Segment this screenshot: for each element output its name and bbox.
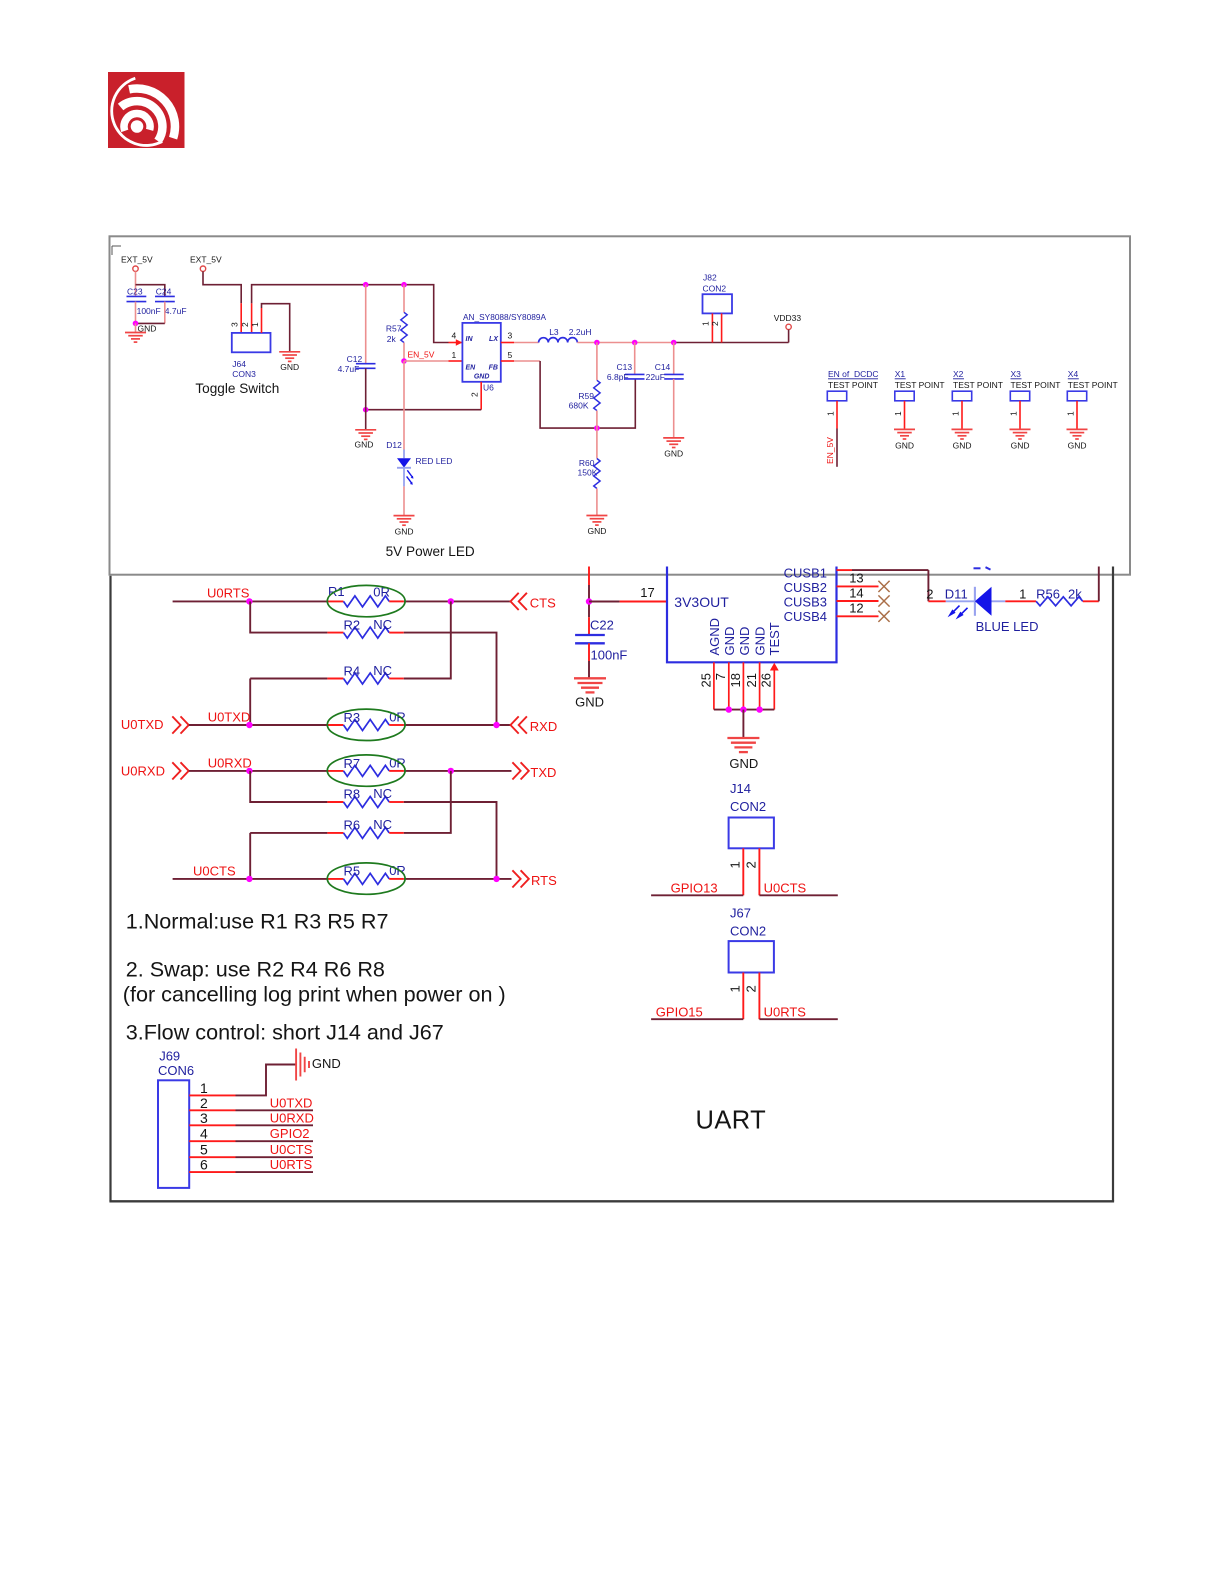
svg-text:2. Swap: use R2 R4 R6 R8: 2. Swap: use R2 R4 R6 R8 [126,956,385,981]
wire U6 gnd to C12 gnd [366,409,482,411]
node gnd bus 7 [726,706,732,712]
svg-text:U0RXD: U0RXD [270,1110,314,1125]
wire J14 pin2 [758,848,760,895]
wire U0TXD row [189,724,328,726]
resistor R59 680K [596,343,598,381]
capacitor C14 22uF [673,343,675,375]
capacitor C23 [127,295,147,297]
svg-text:3.Flow control: short J14 and: 3.Flow control: short J14 and J67 [126,1019,444,1044]
svg-text:C14: C14 [655,362,671,372]
node rail R57 tap [401,282,407,288]
highlight ellipse R3 [327,709,405,740]
ground J64 [279,351,300,353]
svg-text:U0RXD: U0RXD [208,755,252,770]
wire U6 GND pin down [480,382,482,410]
wire 3V3OUT riser [588,567,590,586]
svg-text:2: 2 [744,861,759,868]
svg-text:5: 5 [200,1142,208,1158]
svg-text:U0RTS: U0RTS [270,1157,313,1172]
svg-text:X2: X2 [953,369,964,379]
svg-text:U0CTS: U0CTS [764,881,807,896]
Espressif logo [108,72,185,148]
node CTS junction [448,598,454,604]
svg-text:14: 14 [849,586,863,601]
svg-text:GND: GND [575,695,604,710]
op-amp U6 AN_SY8088/SY8089A [462,323,500,382]
svg-text:R7: R7 [344,756,361,771]
svg-text:GND: GND [355,440,374,450]
svg-text:CTS: CTS [530,595,556,610]
wire GND pin 7 [728,662,730,709]
ground C23/C24 [125,332,146,334]
svg-text:2: 2 [926,586,933,601]
node gnd bus 21 [756,706,762,712]
highlight ellipse R1 [327,585,405,616]
wire J69 pin5 [189,1156,235,1158]
connector J64 CON3 [232,333,271,352]
node U0RXD junction [246,768,252,774]
svg-text:6.8pF: 6.8pF [607,372,629,382]
wire GPIO13 [651,894,743,896]
wire EN_5V to U6 EN [404,360,449,362]
svg-text:GND: GND [588,526,607,536]
svg-text:RTS: RTS [531,873,557,888]
svg-text:2.2uH: 2.2uH [569,327,592,337]
svg-text:NC: NC [373,663,392,678]
svg-text:J82: J82 [703,272,717,282]
svg-text:TEST POINT: TEST POINT [953,380,1003,390]
wire D11 to R56 [1005,600,1036,602]
svg-text:100nF: 100nF [591,647,628,662]
svg-text:VDD33: VDD33 [774,313,802,323]
sheet corner tick [112,245,121,247]
svg-text:U0CTS: U0CTS [193,864,236,879]
wire J64 pin2 to rail [251,303,253,333]
svg-text:RED LED: RED LED [416,456,453,466]
svg-text:1: 1 [200,1080,208,1096]
wire J67 pin1 [742,973,744,1020]
wire L3 to VDD rail [577,342,673,344]
node U0TXD junction [246,722,252,728]
node TXD junction [448,768,454,774]
wire U0RXD row [189,770,328,772]
svg-text:NC: NC [373,617,392,632]
svg-text:GND: GND [474,374,490,381]
resistor R60 150K [596,428,598,458]
svg-text:TEST: TEST [767,622,782,655]
wire R8 left [250,771,327,802]
svg-text:0R: 0R [389,756,406,771]
ground D12 [394,515,415,517]
ground C12 [355,429,376,431]
svg-text:R6: R6 [344,818,361,833]
wire GND pin 18 [742,662,744,709]
wire C23 bottom [135,302,137,324]
resistor R6 NC [327,832,343,834]
svg-text:3: 3 [508,331,513,341]
node rail C14 tap [671,340,677,346]
svg-text:2: 2 [200,1095,208,1111]
led D11 emission arrows [952,606,960,614]
svg-text:25: 25 [698,673,713,687]
svg-text:U0TXD: U0TXD [208,709,251,724]
svg-text:4: 4 [200,1126,208,1142]
svg-text:GND: GND [729,756,758,771]
wire J69 pin6 [189,1171,235,1173]
node EN_5V [401,358,407,364]
svg-text:0R: 0R [389,863,406,878]
wire CUSB2 nc [837,585,879,587]
svg-text:FB: FB [489,364,498,371]
svg-text:C23: C23 [127,287,143,297]
svg-text:U0RTS: U0RTS [764,1005,807,1020]
wire J69 pin1 to ground [189,1094,235,1096]
wire J82 pin2 [721,313,723,342]
svg-text:4.7uF: 4.7uF [338,364,360,374]
svg-text:18: 18 [728,673,743,687]
svg-text:C13: C13 [617,362,633,372]
svg-text:X3: X3 [1011,369,1022,379]
wire rail into U6 IN pin [449,342,462,344]
svg-text:D11: D11 [945,586,968,601]
svg-text:680K: 680K [569,400,589,410]
uart section frame [109,576,111,1202]
svg-text:R57: R57 [386,324,402,334]
wire EN test point / net EN_5V stub [836,401,838,429]
wire U0CTS row [173,878,328,880]
ground J69 [295,1049,297,1081]
wire R2 right to RXD [404,633,497,725]
svg-text:26: 26 [759,673,774,687]
wire X3 to ground [1019,401,1021,430]
wire J67 pin2 [758,973,760,1020]
svg-text:2k: 2k [387,334,397,344]
svg-text:5V Power LED: 5V Power LED [386,544,475,559]
highlight ellipse R7 [327,755,405,786]
svg-text:NC: NC [373,786,392,801]
svg-text:2: 2 [744,985,759,992]
svg-text:TEST POINT: TEST POINT [828,380,878,390]
ic U-USB body [667,567,837,663]
resistor R2 NC [327,632,343,634]
svg-text:GPIO15: GPIO15 [656,1005,703,1020]
svg-text:AGND: AGND [707,618,722,656]
svg-text:D12: D12 [386,440,402,450]
node U0CTS junction [246,876,252,882]
ground X1 [894,428,915,430]
node U0RTS junction [246,598,252,604]
capacitor C24 [155,295,175,297]
svg-text:2: 2 [240,322,250,327]
svg-text:1: 1 [1066,411,1076,416]
svg-text:GND: GND [1011,441,1030,451]
svg-text:1: 1 [951,411,961,416]
node rail C13 tap [632,340,638,346]
resistor R8 NC [327,801,343,803]
svg-text:R4: R4 [344,664,361,679]
svg-text:3: 3 [230,322,240,327]
svg-text:TXD: TXD [530,765,556,780]
power section frame [110,236,1131,574]
svg-text:J64: J64 [232,359,246,369]
port CTS arrow [511,593,519,610]
wire AGND pin 25 [713,662,715,709]
svg-text:CUSB4: CUSB4 [784,609,827,624]
wire X4 to ground [1076,401,1078,430]
svg-text:U0CTS: U0CTS [270,1142,313,1157]
led D12 emission arrows [407,470,412,477]
svg-text:3: 3 [200,1110,208,1126]
svg-text:GND: GND [722,627,737,656]
wire U6 FB to divider [501,360,514,362]
svg-text:6: 6 [200,1157,208,1173]
svg-text:X1: X1 [895,369,906,379]
svg-text:GPIO2: GPIO2 [270,1126,310,1141]
svg-text:22uF: 22uF [646,372,665,382]
svg-text:C22: C22 [590,618,614,633]
ground C22 [574,677,606,679]
wire VDD33 to rail [788,330,790,343]
svg-text:EN of DCDC: EN of DCDC [828,369,879,379]
resistor R1 0R [327,600,343,602]
svg-text:GND: GND [953,441,972,451]
wire CUSB1 to D11 [837,569,853,571]
svg-text:GND: GND [737,627,752,656]
svg-text:150K: 150K [578,468,598,478]
port RXD arrow [511,716,519,733]
svg-text:CON2: CON2 [703,284,727,294]
svg-text:0R: 0R [389,710,406,725]
svg-text:U0TXD: U0TXD [270,1095,313,1110]
no-connect X CUSB2 [878,581,889,592]
svg-text:3V3OUT: 3V3OUT [674,594,729,610]
svg-text:CON6: CON6 [158,1063,194,1078]
svg-text:J69: J69 [159,1049,180,1064]
svg-text:TEST POINT: TEST POINT [895,380,945,390]
node 3V3OUT junction [586,598,592,604]
svg-text:GND: GND [664,449,683,459]
wire U6 LX to L3 [501,342,514,344]
svg-text:1.Normal:use R1 R3 R5 R7: 1.Normal:use R1 R3 R5 R7 [126,908,389,933]
wire R4 right to CTS [404,601,451,678]
svg-text:EXT_5V: EXT_5V [190,254,222,264]
resistor R7 0R [327,770,343,772]
svg-text:X4: X4 [1068,369,1079,379]
wire EXT_5V to C23 [135,271,137,296]
ground R60 [586,515,607,517]
svg-text:4.7uF: 4.7uF [165,306,187,316]
svg-text:J67: J67 [730,906,751,921]
svg-text:100nF: 100nF [137,306,161,316]
wire C24 bottom [164,302,166,324]
highlight ellipse R5 [327,863,405,894]
svg-text:7: 7 [713,673,728,680]
svg-text:IN: IN [466,336,474,343]
wire R6 right to TXD [404,771,451,833]
svg-text:GND: GND [280,362,299,372]
capacitor C13 6.8pF [634,343,636,375]
svg-text:BLUE LED: BLUE LED [976,619,1039,634]
svg-text:C12: C12 [347,354,363,364]
svg-text:17: 17 [640,585,654,600]
svg-text:NC: NC [373,817,392,832]
svg-text:U0RTS: U0RTS [207,586,250,601]
wire U0CTS J14 [759,894,837,896]
svg-text:1: 1 [250,322,260,327]
ic hidden text fragment [974,567,981,569]
svg-text:5: 5 [508,350,513,360]
svg-text:GND: GND [1068,441,1087,451]
svg-text:EN_5V: EN_5V [408,350,435,360]
svg-text:GND: GND [752,627,767,656]
svg-text:CON2: CON2 [730,924,766,939]
node RXD junction [493,722,499,728]
svg-text:RXD: RXD [530,719,557,734]
svg-text:1: 1 [1009,411,1019,416]
svg-text:1: 1 [1019,586,1026,601]
wire gnd bus [714,709,774,711]
svg-text:L3: L3 [549,327,559,337]
svg-text:U0TXD: U0TXD [121,717,164,732]
wire TEST pin 26 [773,669,775,710]
node C23/C24 gnd junction [133,321,139,327]
svg-text:CON2: CON2 [730,799,766,814]
wire EXT_5V2 to J64 pin3 [203,271,241,303]
wire bus to ground [742,710,744,738]
wire J69 pin2 [189,1109,235,1111]
wire R2 left [250,601,327,632]
svg-text:R3: R3 [344,710,361,725]
svg-text:U0RXD: U0RXD [121,763,165,778]
svg-text:CON3: CON3 [232,369,256,379]
wire J69 pin4 [189,1140,235,1142]
svg-text:AN_SY8088/SY8089A: AN_SY8088/SY8089A [463,312,546,322]
svg-text:12: 12 [849,600,863,615]
svg-text:(for cancelling log print when: (for cancelling log print when power on … [123,981,506,1006]
svg-text:2: 2 [469,392,479,397]
svg-text:1: 1 [728,985,743,992]
resistor R57 2k [403,285,405,313]
svg-text:C24: C24 [156,287,172,297]
node rail R59 tap [594,340,600,346]
wire CUSB3 nc [837,600,879,602]
wire R8 right to RTS [404,802,497,879]
ground X4 [1067,428,1088,430]
svg-text:1: 1 [826,411,836,416]
capacitor C12 4.7uF [365,285,367,364]
svg-text:GND: GND [895,441,914,451]
node RTS junction [493,876,499,882]
wire X2 to ground [961,401,963,430]
svg-text:4: 4 [452,331,457,341]
svg-text:LX: LX [489,336,499,343]
svg-text:GPIO13: GPIO13 [671,881,718,896]
svg-text:1: 1 [728,861,743,868]
svg-text:GND: GND [312,1056,341,1071]
svg-text:TEST POINT: TEST POINT [1011,380,1061,390]
node rail C12 tap [363,282,369,288]
resistor R5 0R [327,878,343,880]
svg-text:CUSB2: CUSB2 [784,580,827,595]
svg-text:21: 21 [744,673,759,687]
svg-text:UART: UART [696,1106,767,1134]
wire C23 top to C24 top [136,285,165,297]
node C12 bottom junction [363,407,369,413]
wire U0RTS J67 [759,1018,837,1020]
svg-text:1: 1 [452,350,457,360]
wire X1 to ground [904,401,906,430]
wire J64 pin1 to ground [261,308,263,333]
svg-text:CUSB3: CUSB3 [784,595,827,610]
svg-text:R2: R2 [344,617,361,632]
ground IC [727,737,759,739]
ground X3 [1010,428,1031,430]
svg-text:13: 13 [849,571,863,586]
wire GND pin 21 [759,662,761,709]
wire junction to ground [135,323,137,332]
wire J82 pin1 [711,313,713,342]
svg-text:Toggle Switch: Toggle Switch [195,381,279,396]
svg-text:EXT_5V: EXT_5V [121,254,153,264]
svg-text:R8: R8 [344,787,361,802]
svg-text:GND: GND [138,324,157,334]
ground C14 [663,437,684,439]
port TXD arrow [512,762,520,779]
svg-text:CUSB1: CUSB1 [784,565,827,580]
svg-text:TEST POINT: TEST POINT [1068,380,1118,390]
node FB R59 junction [594,425,600,431]
no-connect X CUSB3 [878,595,889,606]
svg-text:R56: R56 [1036,586,1060,601]
wire R56 to VDD riser [1098,567,1100,602]
wire R6 left [249,833,251,879]
wire J14 pin1 [742,848,744,895]
no-connect X CUSB4 [878,611,889,622]
svg-text:EN_5V: EN_5V [825,437,835,464]
wire J69 pin3 [189,1124,235,1126]
svg-text:GND: GND [395,527,414,537]
node gnd bus 18 [740,706,746,712]
svg-text:2: 2 [710,321,720,326]
inductor L3 2.2uH [539,338,578,343]
svg-text:1: 1 [893,411,903,416]
ground X2 [952,428,973,430]
svg-text:J14: J14 [730,781,751,796]
svg-text:EN: EN [466,364,477,371]
wire U0RTS row [173,600,328,602]
resistor R4 NC [327,678,343,680]
wire GPIO15 [651,1018,743,1020]
port RTS arrow [512,870,520,887]
svg-text:U6: U6 [483,382,494,392]
resistor R3 0R [327,724,343,726]
wire R4 left [249,679,251,726]
wire CUSB4 nc [837,615,879,617]
wire pin17 to IC [589,601,620,603]
